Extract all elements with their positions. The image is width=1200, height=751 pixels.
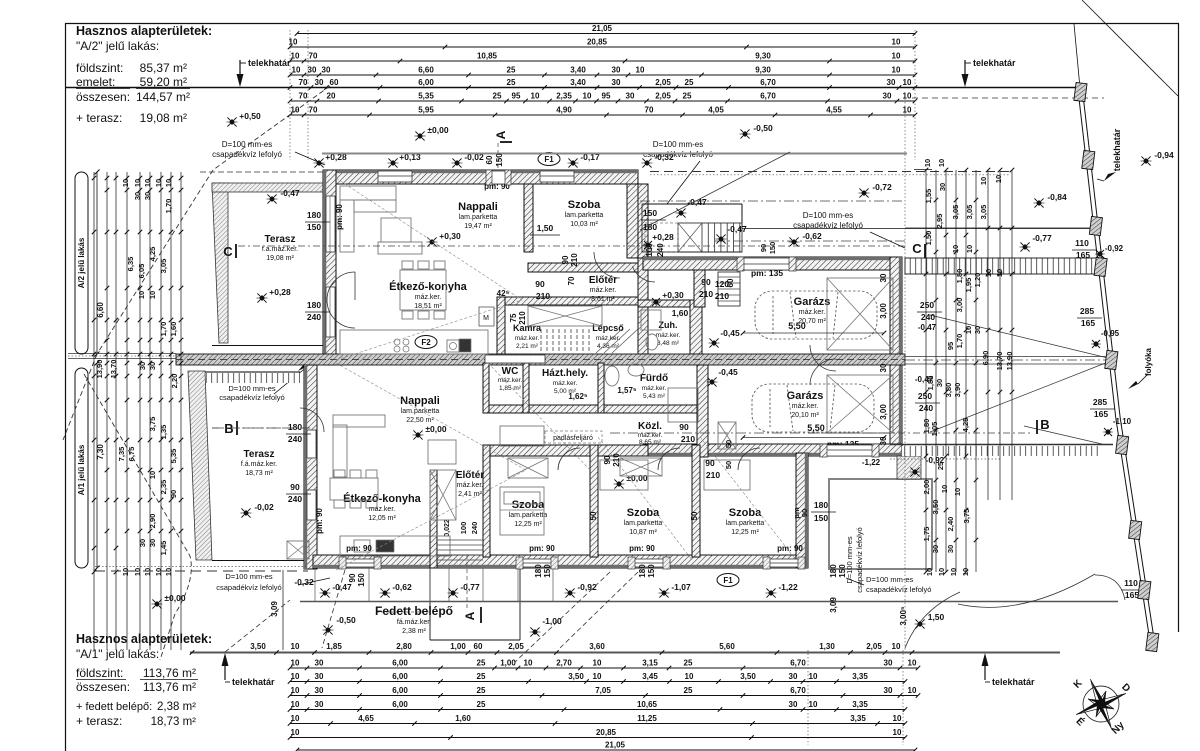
svg-text:3,05: 3,05: [951, 205, 960, 220]
svg-text:165: 165: [1081, 318, 1095, 328]
F2 oval: [415, 336, 437, 349]
window marks top wall: [378, 171, 412, 182]
svg-text:1,50: 1,50: [537, 223, 554, 233]
svg-text:10: 10: [949, 568, 958, 576]
svg-text:Közl.: Közl.: [638, 421, 662, 432]
upper zuh fixtures: [641, 310, 661, 330]
svg-text:10: 10: [903, 92, 912, 101]
svg-text:6,70: 6,70: [760, 78, 776, 87]
lower dining table: [330, 478, 378, 500]
svg-text:30: 30: [938, 183, 947, 191]
upper kitchen counter: [340, 330, 488, 354]
svg-text:csapadékvíz lefolyó: csapadékvíz lefolyó: [793, 221, 863, 230]
svg-text:1,60: 1,60: [169, 322, 178, 337]
svg-text:90: 90: [561, 255, 570, 264]
svg-text:máz.ker.: máz.ker.: [369, 506, 396, 513]
svg-text:3,00⁵: 3,00⁵: [899, 606, 908, 626]
svg-text:pm: 90: pm: 90: [629, 544, 655, 553]
svg-text:3,00: 3,00: [879, 404, 888, 420]
svg-text:-0,02: -0,02: [254, 502, 274, 512]
svg-text:1,45: 1,45: [159, 541, 168, 556]
svg-text:250: 250: [918, 391, 932, 401]
middle party wall band: [68, 353, 176, 355]
svg-text:30: 30: [322, 66, 331, 75]
svg-text:95: 95: [602, 92, 611, 101]
svg-text:B: B: [1040, 417, 1049, 432]
svg-text:30: 30: [315, 686, 324, 695]
svg-text:9,30: 9,30: [755, 66, 771, 75]
svg-text:csapadékvíz lefolyó: csapadékvíz lefolyó: [212, 150, 282, 159]
svg-text:máz.ker.: máz.ker.: [553, 380, 578, 387]
svg-text:D=100 mm-es: D=100 mm-es: [653, 140, 703, 149]
top dimension rows: [297, 33, 915, 35]
svg-text:1,80: 1,80: [955, 269, 964, 284]
wardrobes X: [508, 458, 548, 478]
svg-text:10: 10: [961, 568, 970, 576]
svg-text:30: 30: [315, 672, 324, 681]
dashed drain leaders: [97, 170, 213, 354]
svg-text:10: 10: [291, 686, 300, 695]
svg-text:25: 25: [477, 700, 486, 709]
svg-text:pm: 90: pm: 90: [335, 204, 344, 230]
svg-text:-0,47: -0,47: [918, 323, 937, 332]
svg-text:30: 30: [879, 273, 888, 282]
svg-text:50: 50: [589, 511, 598, 520]
svg-text:10: 10: [903, 78, 912, 87]
svg-text:telekhatár: telekhatár: [992, 677, 1035, 687]
svg-text:D=100 mm-es: D=100 mm-es: [222, 140, 272, 149]
eaves dashes bottom left: [95, 566, 308, 568]
svg-text:D=100 mm-es: D=100 mm-es: [866, 575, 914, 584]
svg-text:20,85: 20,85: [596, 728, 617, 737]
svg-text:30: 30: [612, 78, 621, 87]
svg-text:telekhatár: telekhatár: [973, 58, 1016, 68]
svg-text:Előtér: Előtér: [456, 470, 484, 481]
svg-text:95: 95: [946, 342, 955, 350]
svg-text:Fürdő: Fürdő: [640, 373, 668, 384]
svg-text:30: 30: [626, 92, 635, 101]
svg-text:70: 70: [567, 276, 576, 285]
svg-text:10: 10: [908, 686, 917, 695]
svg-text:6,75: 6,75: [127, 447, 136, 462]
svg-text:A: A: [494, 130, 508, 139]
svg-text:10: 10: [951, 245, 960, 253]
svg-text:máz.ker.: máz.ker.: [415, 294, 442, 301]
svg-text:Hasznos alapterületek:: Hasznos alapterületek:: [76, 632, 212, 646]
upper unit walls: [322, 153, 907, 155]
svg-text:150: 150: [543, 564, 552, 578]
svg-text:13,90: 13,90: [1005, 352, 1014, 371]
svg-text:90: 90: [290, 482, 300, 492]
svg-text:90: 90: [169, 490, 178, 498]
svg-text:10: 10: [903, 106, 912, 115]
svg-text:4,55: 4,55: [826, 106, 842, 115]
svg-text:10: 10: [893, 728, 902, 737]
svg-text:Fedett belépő: Fedett belépő: [375, 604, 453, 618]
svg-text:6,00: 6,00: [392, 672, 408, 681]
svg-text:21,05: 21,05: [605, 741, 626, 750]
svg-text:10: 10: [923, 159, 932, 167]
door arcs: [327, 272, 355, 300]
svg-text:240: 240: [470, 522, 479, 535]
svg-text:földszint:: földszint:: [76, 61, 123, 75]
svg-text:10: 10: [892, 642, 901, 651]
svg-text:30: 30: [143, 192, 152, 200]
svg-text:150: 150: [768, 242, 777, 255]
svg-text:70: 70: [309, 52, 318, 61]
svg-text:13,90: 13,90: [95, 360, 104, 379]
svg-text:10,85: 10,85: [477, 52, 498, 61]
svg-text:240: 240: [288, 434, 302, 444]
svg-text:2,35: 2,35: [159, 480, 168, 495]
svg-text:6,70: 6,70: [760, 92, 776, 101]
svg-text:1,70: 1,70: [955, 334, 964, 349]
svg-text:20,10 m²: 20,10 m²: [791, 412, 819, 419]
svg-text:5,50: 5,50: [807, 423, 825, 433]
svg-text:B: B: [224, 421, 233, 436]
svg-text:3,05: 3,05: [159, 259, 168, 274]
svg-text:22,50 m²: 22,50 m²: [406, 417, 434, 424]
svg-text:WC: WC: [502, 366, 519, 377]
svg-text:3,50: 3,50: [740, 672, 756, 681]
svg-text:5,43 m²: 5,43 m²: [643, 393, 666, 400]
svg-text:pm: 90: pm: 90: [529, 544, 555, 553]
svg-text:285: 285: [1080, 306, 1094, 316]
svg-text:1,00: 1,00: [450, 642, 466, 651]
svg-text:2,20: 2,20: [170, 374, 179, 389]
svg-text:10: 10: [984, 269, 993, 277]
svg-text:85,37 m²: 85,37 m²: [140, 61, 187, 75]
svg-text:±0,00: ±0,00: [427, 125, 448, 135]
svg-text:30: 30: [133, 192, 142, 200]
svg-text:10: 10: [291, 672, 300, 681]
svg-text:10: 10: [133, 179, 142, 187]
svg-text:1,85: 1,85: [326, 642, 342, 651]
stadium A/2: [75, 172, 88, 354]
svg-text:1,30: 1,30: [819, 642, 835, 651]
svg-text:13,70: 13,70: [109, 360, 118, 379]
svg-text:4,65: 4,65: [358, 714, 374, 723]
svg-text:285: 285: [1093, 397, 1107, 407]
svg-text:+ terasz:: + terasz:: [76, 111, 122, 125]
svg-text:F2: F2: [421, 338, 431, 347]
svg-text:10: 10: [809, 672, 818, 681]
svg-text:A/2 jelű lakás: A/2 jelű lakás: [77, 237, 86, 288]
svg-text:f.á.máz.ker.: f.á.máz.ker.: [241, 461, 277, 468]
svg-text:110: 110: [1075, 238, 1089, 248]
svg-text:10: 10: [593, 672, 602, 681]
svg-text:3,15: 3,15: [642, 659, 658, 668]
lower nappali sofa: [333, 425, 347, 477]
svg-text:165: 165: [1125, 590, 1139, 600]
svg-text:250: 250: [920, 300, 934, 310]
svg-text:60: 60: [726, 278, 735, 287]
svg-text:8,65 m²: 8,65 m²: [639, 439, 662, 446]
svg-text:1,85 m²: 1,85 m²: [499, 385, 522, 392]
svg-text:90: 90: [759, 244, 768, 252]
svg-text:5,50: 5,50: [788, 321, 806, 331]
furniture upper nappali sofa: [340, 186, 396, 200]
svg-text:240: 240: [921, 312, 935, 322]
svg-text:3,00: 3,00: [879, 303, 888, 319]
svg-text:3,35: 3,35: [852, 672, 868, 681]
svg-text:fá.máz.ker.: fá.máz.ker.: [397, 619, 431, 626]
svg-text:Hasznos alapterületek:: Hasznos alapterületek:: [76, 24, 212, 38]
svg-text:f.á.máz.ker.: f.á.máz.ker.: [262, 246, 298, 253]
svg-text:30: 30: [308, 66, 317, 75]
svg-text:padlásfeljáró: padlásfeljáró: [553, 435, 593, 442]
svg-text:3,50: 3,50: [250, 642, 266, 651]
svg-text:Nappali: Nappali: [400, 395, 440, 407]
svg-text:3,45: 3,45: [642, 672, 658, 681]
svg-text:1,70: 1,70: [159, 322, 168, 337]
svg-text:-0,47: -0,47: [687, 197, 707, 207]
lower kitchen: [340, 536, 450, 556]
svg-text:7,05: 7,05: [595, 686, 611, 695]
svg-text:3,50: 3,50: [568, 672, 584, 681]
svg-text:6,00: 6,00: [418, 78, 434, 87]
svg-text:Szoba: Szoba: [729, 507, 762, 519]
svg-text:3,00: 3,00: [955, 298, 964, 313]
svg-text:máz.ker.: máz.ker.: [799, 309, 826, 316]
svg-text:2,05: 2,05: [866, 642, 882, 651]
svg-text:telekhatár: telekhatár: [232, 677, 275, 687]
svg-text:2,38 m²: 2,38 m²: [157, 701, 196, 713]
svg-text:6,70: 6,70: [790, 659, 806, 668]
svg-text:-1,10: -1,10: [1113, 417, 1132, 426]
svg-text:2,05: 2,05: [655, 92, 671, 101]
svg-text:180: 180: [307, 210, 321, 220]
F1 oval bottom: [717, 574, 739, 587]
svg-text:Házt.hely.: Házt.hely.: [542, 368, 588, 379]
cars (dashed): [755, 291, 877, 339]
svg-text:F1: F1: [544, 155, 554, 164]
svg-text:D=100 mm-es: D=100 mm-es: [228, 384, 276, 393]
svg-text:10: 10: [531, 92, 540, 101]
svg-text:Étkező-konyha: Étkező-konyha: [343, 492, 422, 505]
svg-text:máz.ker.: máz.ker.: [515, 335, 540, 342]
svg-text:+0,30: +0,30: [662, 290, 684, 300]
svg-text:7,35: 7,35: [117, 447, 126, 462]
svg-text:30: 30: [789, 672, 798, 681]
garage A/2 walls: [643, 257, 901, 270]
lower right terrace: [829, 479, 932, 569]
svg-text:10: 10: [292, 66, 301, 75]
svg-text:folyóka: folyóka: [1144, 347, 1153, 376]
svg-text:60: 60: [485, 155, 494, 164]
svg-text:30: 30: [315, 78, 324, 87]
svg-text:10: 10: [953, 488, 962, 496]
svg-text:180: 180: [814, 500, 828, 510]
svg-text:-0,47: -0,47: [727, 224, 747, 234]
svg-text:12,05 m²: 12,05 m²: [368, 515, 396, 522]
telekhatar top line: [65, 87, 1078, 89]
svg-text:6,60: 6,60: [418, 66, 434, 75]
svg-text:25: 25: [685, 78, 694, 87]
svg-text:Szoba: Szoba: [568, 199, 601, 211]
svg-text:10: 10: [892, 38, 901, 47]
svg-text:8,61 m²: 8,61 m²: [591, 296, 615, 303]
svg-text:30: 30: [789, 700, 798, 709]
svg-text:10: 10: [636, 66, 645, 75]
svg-text:21,05: 21,05: [592, 24, 613, 33]
svg-text:2,40: 2,40: [946, 517, 955, 532]
svg-text:D=100 mm-es: D=100 mm-es: [225, 572, 273, 581]
svg-text:210: 210: [518, 311, 527, 325]
svg-text:5,60: 5,60: [719, 642, 735, 651]
svg-text:2,70: 2,70: [556, 659, 572, 668]
svg-text:3,90: 3,90: [953, 383, 962, 398]
svg-text:10: 10: [925, 568, 934, 576]
svg-text:113,76 m²: 113,76 m²: [143, 680, 196, 694]
svg-text:10: 10: [137, 291, 146, 299]
svg-text:csapadékvíz lefolyó: csapadékvíz lefolyó: [219, 393, 284, 402]
svg-text:6,70: 6,70: [790, 686, 806, 695]
svg-text:110: 110: [1124, 578, 1138, 588]
svg-text:210: 210: [699, 289, 713, 299]
stadium A/1: [75, 368, 88, 568]
left wall windows upper: [326, 196, 335, 252]
svg-text:10: 10: [893, 714, 902, 723]
svg-text:180: 180: [829, 564, 838, 578]
svg-text:150: 150: [647, 564, 656, 578]
svg-text:-1,07: -1,07: [671, 582, 691, 592]
svg-text:30: 30: [884, 686, 893, 695]
svg-text:150: 150: [814, 513, 828, 523]
svg-text:20: 20: [327, 92, 336, 101]
svg-text:-0,45: -0,45: [718, 367, 738, 377]
svg-text:3,05: 3,05: [979, 205, 988, 220]
svg-text:150: 150: [838, 564, 847, 578]
svg-text:10: 10: [148, 291, 157, 299]
svg-text:19,08 m²: 19,08 m²: [266, 255, 294, 262]
svg-text:50: 50: [724, 461, 733, 469]
svg-text:3,05: 3,05: [965, 205, 974, 220]
svg-text:100: 100: [459, 522, 468, 535]
svg-text:210: 210: [681, 434, 695, 444]
svg-text:25: 25: [683, 92, 692, 101]
svg-text:pm: 90: pm: 90: [777, 544, 803, 553]
svg-text:5,95: 5,95: [418, 106, 434, 115]
svg-text:-0,92: -0,92: [577, 582, 597, 592]
svg-text:1,60: 1,60: [455, 714, 471, 723]
svg-text:30: 30: [315, 659, 324, 668]
svg-text:1,35: 1,35: [159, 425, 168, 440]
svg-text:Nappali: Nappali: [458, 201, 498, 213]
svg-text:2,38 m²: 2,38 m²: [402, 628, 426, 635]
svg-text:30: 30: [612, 66, 621, 75]
svg-text:25: 25: [477, 659, 486, 668]
svg-text:2,00: 2,00: [922, 480, 931, 495]
svg-text:6,00: 6,00: [392, 700, 408, 709]
svg-text:100: 100: [645, 243, 654, 257]
svg-text:-0,50: -0,50: [753, 123, 773, 133]
svg-text:10: 10: [593, 659, 602, 668]
svg-text:10,87 m²: 10,87 m²: [629, 529, 657, 536]
svg-text:3,09: 3,09: [829, 597, 838, 613]
svg-text:10: 10: [685, 672, 694, 681]
svg-text:3,75: 3,75: [148, 417, 157, 432]
beds: [500, 426, 544, 446]
svg-text:D=100 mm-es: D=100 mm-es: [803, 211, 853, 220]
svg-text:10: 10: [291, 106, 300, 115]
svg-text:összesen:: összesen:: [76, 90, 130, 104]
svg-text:9,30: 9,30: [755, 52, 771, 61]
svg-text:-1,00: -1,00: [542, 616, 562, 626]
svg-text:18,51 m²: 18,51 m²: [414, 303, 442, 310]
svg-text:lam.parketta: lam.parketta: [624, 520, 663, 527]
svg-text:165: 165: [1076, 250, 1090, 260]
svg-text:10: 10: [524, 659, 533, 668]
svg-text:+0,50: +0,50: [239, 111, 261, 121]
svg-text:10: 10: [965, 245, 974, 253]
svg-text:-0,45: -0,45: [720, 328, 740, 338]
svg-text:-0,94: -0,94: [1154, 150, 1174, 160]
svg-text:30: 30: [883, 92, 892, 101]
svg-text:144,57 m²: 144,57 m²: [136, 90, 190, 104]
svg-text:210: 210: [706, 470, 720, 480]
svg-text:-1,22: -1,22: [778, 582, 798, 592]
svg-text:10: 10: [143, 568, 152, 576]
svg-text:11,25: 11,25: [637, 714, 657, 723]
svg-text:C: C: [223, 244, 233, 259]
svg-text:csapadékvíz lefolyó: csapadékvíz lefolyó: [866, 585, 931, 594]
svg-text:240: 240: [656, 243, 665, 257]
svg-text:-0,62: -0,62: [802, 231, 822, 241]
small stair entry lower: [437, 559, 483, 561]
window marks bottom wall: [345, 559, 375, 567]
svg-text:Terasz: Terasz: [244, 449, 275, 460]
svg-text:12,25 m²: 12,25 m²: [731, 529, 759, 536]
svg-text:1,60: 1,60: [672, 308, 689, 318]
svg-text:Garázs: Garázs: [794, 296, 831, 308]
svg-text:-0,77: -0,77: [460, 582, 480, 592]
svg-text:-0,72: -0,72: [872, 182, 892, 192]
bottom telekhatar line: [190, 652, 1060, 654]
svg-text:-0,77: -0,77: [1032, 233, 1052, 243]
svg-text:Garázs: Garázs: [787, 390, 824, 402]
svg-text:3,09: 3,09: [270, 601, 279, 617]
svg-text:10: 10: [291, 700, 300, 709]
svg-text:150: 150: [307, 222, 321, 232]
svg-text:90: 90: [535, 279, 545, 289]
svg-text:C: C: [912, 241, 922, 256]
svg-text:máz.ker.: máz.ker.: [457, 482, 484, 489]
svg-text:lam.parketta: lam.parketta: [565, 212, 604, 219]
svg-text:19,08 m²: 19,08 m²: [140, 111, 187, 125]
stairs lepcso: [528, 306, 602, 326]
svg-text:165: 165: [1094, 409, 1108, 419]
svg-text:30: 30: [148, 362, 157, 370]
svg-text:10: 10: [154, 179, 163, 187]
svg-text:6,35: 6,35: [126, 257, 135, 272]
svg-text:10: 10: [937, 159, 946, 167]
svg-text:0,022: 0,022: [444, 519, 451, 537]
svg-text:lam.parketta: lam.parketta: [459, 214, 498, 221]
svg-text:240: 240: [288, 494, 302, 504]
svg-text:-0,50: -0,50: [336, 615, 356, 625]
svg-text:+ fedett belépő:: + fedett belépő:: [76, 701, 152, 713]
svg-text:+0,28: +0,28: [652, 232, 674, 242]
svg-text:210: 210: [612, 453, 621, 467]
svg-text:10: 10: [940, 485, 949, 493]
svg-text:1,00: 1,00: [500, 659, 516, 668]
svg-text:10: 10: [133, 568, 142, 576]
svg-text:1,75: 1,75: [922, 527, 931, 542]
svg-text:Szoba: Szoba: [627, 507, 660, 519]
svg-text:10: 10: [995, 269, 1004, 277]
svg-text:pm: 90: pm: 90: [315, 508, 324, 534]
